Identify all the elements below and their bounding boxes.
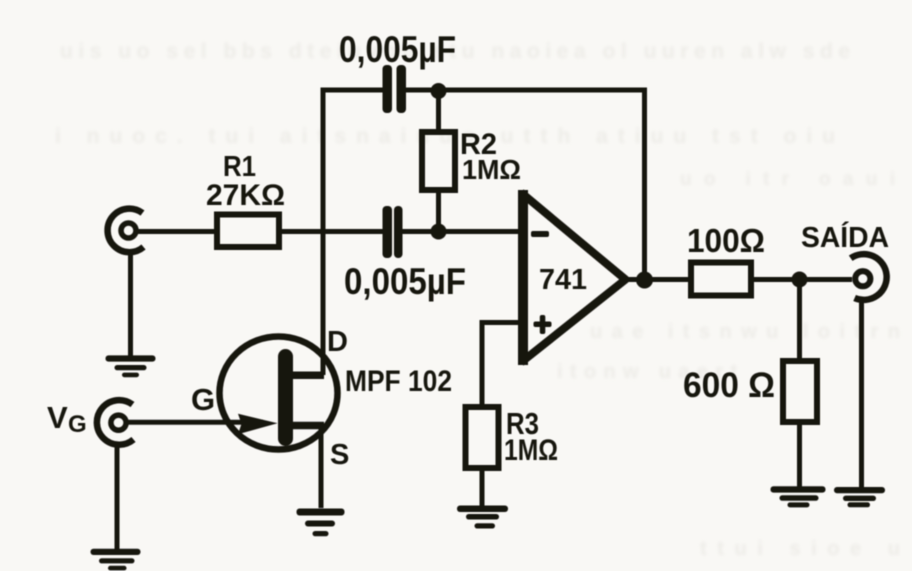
label R3 [506,406,539,441]
op-amp U1 741 [521,190,626,365]
resistor R2 1MΩ (feedback) [436,91,441,231]
svg-text:100Ω: 100Ω [687,222,765,259]
ground: output jack ground [834,487,885,507]
svg-text:27KΩ: 27KΩ [206,179,285,212]
svg-text:G: G [191,382,215,417]
ground: 600Ω ground [771,486,826,507]
svg-text:V: V [47,400,68,435]
capacitor C2 0,005uF (series input) [383,206,403,258]
label Q1 pin D [327,326,348,358]
ground: R3 ground [457,506,508,529]
wire: input jack to R1 [135,229,217,234]
label op-amp inverting pin - [531,231,549,237]
wire: junction down to 600Ω [797,280,802,362]
connector J2 VG input jack [97,400,134,445]
wire: R3 to ground [480,468,485,506]
Q1 drain stub [292,372,324,380]
wire: 600Ω to ground [797,422,802,487]
svg-text:0,005µF: 0,005µF [344,261,466,302]
svg-text:741: 741 [539,264,587,296]
ground: VG ground [91,549,141,571]
wire: non-inverting input down to R3 [482,323,519,408]
connector J1 input jack [108,209,144,253]
resistor R3 1MΩ [466,407,499,468]
label 600Ω [683,366,775,405]
label R2 value 1MΩ [462,154,521,185]
label C1 value 0,005µF [339,29,456,70]
ground: input jack ground [106,355,156,377]
label Q1 pin S [330,439,349,471]
Q1 source stub and wire to ground [292,422,324,430]
label C2 value 0,005µF [344,261,466,302]
resistor R1 27KΩ [217,215,279,248]
label Q1 pin G [191,382,215,417]
connector J3 SAÍDA output jack [851,254,887,300]
wire: output jack to ground [859,298,864,487]
Q1 gate arrow [238,414,278,434]
wire: VG jack to ground [115,445,120,549]
label 100Ω [687,222,765,259]
svg-text:0,005µF: 0,005µF [339,29,456,70]
label R1 value 27KΩ [206,179,285,212]
wire: R1 to op-amp inverting input (through C2 node) [279,229,519,234]
label op-amp non-inverting pin + [534,315,552,334]
ground: JFET source ground [297,509,345,537]
label U1 741 [539,264,587,296]
svg-text:1MΩ: 1MΩ [504,434,558,467]
label VG [47,400,87,438]
transistor Q1 MPF102 JFET [220,337,338,450]
resistor 600Ω (load) [783,361,817,422]
resistor 100Ω (output series) [691,263,751,296]
label R1 [223,151,256,183]
label R2 [460,128,497,161]
node: output/600Ω junction [792,272,808,288]
svg-text:MPF 102: MPF 102 [345,365,452,398]
wire: vertical drain line x=323 from top rail down to JFET drain stub [321,90,326,375]
svg-text:600 Ω: 600 Ω [683,366,775,405]
Q1 channel bar [278,349,293,446]
svg-text:S: S [330,439,349,471]
svg-text:1MΩ: 1MΩ [462,154,521,185]
wire: op-amp output to 100Ω resistor [625,277,691,282]
svg-text:D: D [327,326,348,358]
node: C1/R2 top junction [431,83,447,99]
label Q1 type MPF102 [345,365,452,398]
wire: VG jack to JFET gate [127,420,263,425]
label SAÍDA [801,220,889,254]
wire: input jack to ground [128,252,133,356]
svg-text:uae itsnwu loitrn: uae itsnwu loitrn [590,321,900,343]
wire: top feedback rail y=90 [321,90,645,279]
svg-text:SAÍDA: SAÍDA [801,220,889,254]
node: C2/R2 bottom junction [431,224,447,240]
node: output/feedback junction [636,272,653,289]
capacitor C1 0,005uF (top) [383,65,407,113]
svg-text:G: G [68,411,87,438]
wire: 100Ω to output jack [751,277,852,282]
label R3 value 1MΩ [504,434,558,467]
